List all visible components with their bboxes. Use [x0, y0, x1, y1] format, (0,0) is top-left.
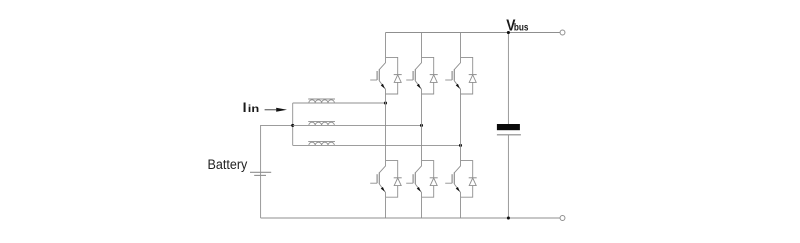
wire phase 1 row	[293, 102, 386, 104]
svg-text:in: in	[248, 104, 259, 115]
label Iin	[243, 99, 260, 115]
wire battery negative to bottom rail	[260, 175, 262, 218]
diode D6	[461, 161, 477, 198]
wire leg 3 collector to top rail	[460, 33, 462, 58]
wire phase 3 row	[293, 144, 461, 146]
wire phase 2 row	[293, 124, 422, 126]
diode D1	[386, 57, 402, 94]
transistor Q4	[406, 161, 421, 198]
diode D5	[461, 57, 477, 94]
inductor L2	[308, 121, 335, 125]
wire leg 3 midpoint vertical	[460, 94, 462, 161]
inductor L3	[308, 141, 335, 145]
diode D2	[386, 161, 402, 198]
node phase 3 midpoint	[459, 144, 462, 147]
wire input current arrow	[265, 108, 287, 112]
wire battery positive to inductor bus	[261, 125, 293, 175]
transistor Q6	[445, 161, 460, 198]
diode D4	[422, 161, 438, 198]
node bottom rail capacitor junction	[507, 216, 510, 219]
wire leg 2 emitter to bottom rail	[421, 197, 423, 218]
wire top DC bus rail	[386, 32, 560, 34]
node phase 2 midpoint	[420, 124, 423, 127]
wire leg 2 collector to top rail	[421, 33, 423, 58]
transistor Q2	[370, 161, 385, 198]
terminal - output	[560, 216, 565, 221]
node top rail capacitor junction	[507, 31, 510, 34]
wire capacitor top	[507, 33, 509, 125]
inductor L1	[308, 99, 335, 103]
svg-text:Battery: Battery	[208, 157, 248, 172]
wire leg 1 collector to top rail	[385, 33, 387, 58]
wire input distribution bus	[292, 103, 294, 145]
capacitor C1	[497, 124, 521, 135]
transistor Q5	[445, 57, 460, 94]
wire capacitor bottom	[507, 135, 509, 218]
terminal + output	[560, 30, 565, 35]
wire bottom return rail	[261, 217, 560, 219]
wire leg 1 emitter to bottom rail	[385, 197, 387, 218]
svg-text:I: I	[243, 99, 247, 115]
svg-text:bus: bus	[514, 21, 529, 33]
node battery junction	[291, 124, 294, 127]
transistor Q3	[406, 57, 421, 94]
wire leg 2 midpoint vertical	[421, 94, 423, 161]
transistor Q1	[370, 57, 385, 94]
node phase 1 midpoint	[384, 101, 387, 104]
battery BT1	[250, 172, 271, 175]
label Vbus	[506, 17, 528, 34]
wire leg 1 midpoint vertical	[385, 94, 387, 161]
wire leg 3 emitter to bottom rail	[460, 197, 462, 218]
diode D3	[422, 57, 438, 94]
